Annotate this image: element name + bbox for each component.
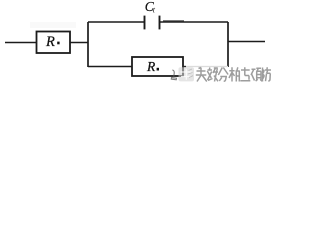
svg-text:R: R bbox=[146, 59, 156, 74]
wire top branch to Ct bbox=[88, 21, 145, 23]
wire Rs to node A bbox=[70, 42, 88, 44]
label Rt value bbox=[146, 59, 159, 74]
wire Rt to node B faint under watermark bbox=[186, 66, 228, 68]
svg-text:R: R bbox=[45, 34, 55, 50]
resistor Rt box bbox=[132, 57, 183, 76]
node B right vertical bus bbox=[227, 22, 229, 67]
wire thick segment after Ct bbox=[163, 20, 184, 22]
wire Rt to node B (stub, rest hidden by watermark) bbox=[183, 66, 186, 68]
capacitor Ct right plate bbox=[159, 16, 161, 30]
wire bottom branch to Rt bbox=[88, 66, 132, 68]
wire input left bbox=[5, 42, 37, 44]
watermark logo bbox=[171, 67, 194, 81]
svg-text:t: t bbox=[153, 6, 156, 15]
watermark text (approximation of 失效分析与预防) bbox=[196, 67, 271, 81]
resistor Rs box bbox=[37, 32, 71, 54]
label Ct value bbox=[145, 0, 156, 15]
node A left vertical bus bbox=[87, 22, 89, 67]
wire output right bbox=[228, 41, 265, 43]
capacitor Ct left plate bbox=[144, 16, 146, 30]
label Rs value bbox=[45, 34, 60, 50]
wire Ct to node B bbox=[160, 21, 229, 23]
